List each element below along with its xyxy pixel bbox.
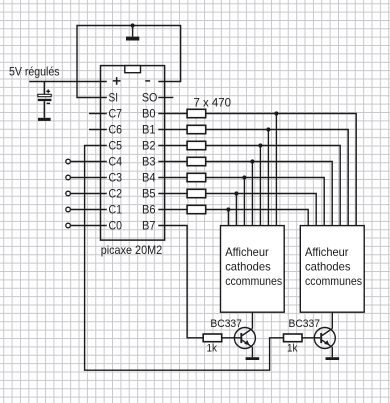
resistor R1 470 — [187, 109, 206, 117]
svg-text:SO: SO — [142, 91, 158, 105]
terminal circle C1 — [66, 207, 71, 212]
svg-text:B5: B5 — [142, 187, 156, 201]
IC U1 picaxe 20M2 body — [101, 66, 165, 241]
wire B4 drop to display 1 — [243, 178, 245, 226]
wire B0 segment to displays — [206, 114, 357, 226]
wire B2 drop to display 1 — [259, 146, 261, 226]
capacitor C1 positive plate — [38, 94, 51, 96]
wire B5 drop to display 1 — [235, 194, 237, 226]
resistor R3 470 — [187, 141, 206, 149]
wire B0 drop to display 1 — [275, 114, 277, 226]
capacitor C1 positive lead — [43, 82, 45, 95]
wire B4 to resistor — [158, 177, 187, 179]
wire B3 drop to display 1 — [251, 162, 253, 226]
svg-text:cathodes: cathodes — [225, 260, 271, 273]
transistor Q1 BC337 — [234, 328, 255, 349]
svg-text:C0: C0 — [109, 219, 123, 233]
wire C2 — [70, 193, 106, 195]
svg-text:BC337: BC337 — [289, 318, 321, 330]
resistor R5 470 — [187, 173, 206, 181]
wire B2 segment to displays — [206, 146, 341, 226]
svg-text:1k: 1k — [287, 342, 298, 354]
junction B4 — [242, 175, 246, 179]
display DIS2 afficheur box — [300, 226, 364, 313]
wire Q2 emitter to ground — [331, 347, 333, 357]
junction dot on 0V top rail — [131, 23, 135, 27]
svg-text:B0: B0 — [142, 107, 156, 121]
svg-text:C3: C3 — [109, 171, 123, 185]
terminal circle C0 — [66, 223, 71, 228]
resistor R7 470 — [187, 205, 206, 213]
junction B0 — [274, 111, 278, 115]
svg-text:B6: B6 — [142, 203, 156, 217]
junction B2 — [258, 143, 262, 147]
svg-text:cathodes: cathodes — [305, 260, 351, 273]
pin stub C7 — [89, 113, 107, 115]
display DIS1 afficheur box — [221, 226, 285, 313]
terminal circle C2 — [66, 191, 71, 196]
capacitor C1 negative plate — [38, 99, 52, 101]
wire R8 to Q1 base — [222, 337, 241, 339]
wire B6 drop to display 1 — [227, 210, 229, 226]
pin stub C6 — [89, 129, 107, 131]
wire Q2 collector to DIS2 — [331, 312, 333, 328]
wire B0 to resistor — [158, 113, 187, 115]
wire B6 to resistor — [158, 209, 187, 211]
svg-text:Afficheur: Afficheur — [225, 246, 269, 259]
wire B3 segment to displays — [206, 162, 333, 226]
ground on 0V top rail — [132, 26, 134, 37]
svg-text:C7: C7 — [109, 107, 123, 121]
pin - label — [145, 80, 150, 82]
transistor Q2 BC337 — [314, 328, 335, 349]
wire B7 to base resistor of Q1 — [158, 226, 203, 338]
svg-text:C2: C2 — [109, 187, 123, 201]
svg-text:Afficheur: Afficheur — [305, 246, 349, 259]
wire C4 — [70, 161, 106, 163]
wire C3 — [70, 177, 106, 179]
svg-text:C6: C6 — [109, 123, 123, 137]
junction B5 — [234, 191, 238, 195]
pin stub SO — [158, 97, 173, 99]
wire B6 segment to displays — [206, 210, 309, 226]
wire B3 to resistor — [158, 161, 187, 163]
wire R9 to Q2 base — [302, 337, 320, 339]
svg-text:5V régulés: 5V régulés — [9, 64, 60, 78]
svg-text:B3: B3 — [142, 155, 156, 169]
wire B2 to resistor — [158, 145, 187, 147]
svg-text:BC337: BC337 — [210, 318, 242, 330]
wire Q1 emitter to ground — [251, 347, 253, 357]
junction B1 — [266, 127, 270, 131]
ground below C1 — [38, 118, 51, 121]
resistor R8 1k — [203, 334, 222, 342]
wire B5 to resistor — [158, 193, 187, 195]
wire B4 segment to displays — [206, 178, 325, 226]
wire Q1 collector to DIS1 — [251, 312, 253, 328]
svg-text:1k: 1k — [207, 342, 218, 354]
resistor R4 470 — [187, 157, 206, 165]
pin + label — [113, 77, 121, 85]
svg-text:7 x 470: 7 x 470 — [194, 96, 232, 109]
wire C0 — [70, 225, 106, 227]
IC U1 top notch — [125, 66, 141, 73]
wire C1 — [70, 209, 106, 211]
svg-text:B2: B2 — [142, 139, 156, 153]
capacitor C1 negative lead — [43, 101, 45, 118]
svg-text:picaxe 20M2: picaxe 20M2 — [101, 243, 163, 257]
svg-text:SI: SI — [109, 91, 119, 105]
junction B3 — [250, 159, 254, 163]
svg-text:C5: C5 — [109, 139, 123, 153]
wire 0V loop: SI pin to top rail to pin - — [77, 26, 181, 98]
wire C5 to base resistor of Q2 — [85, 146, 284, 371]
svg-text:C4: C4 — [109, 155, 123, 169]
terminal circle C3 — [66, 175, 71, 180]
resistor R2 470 — [187, 125, 206, 133]
capacitor C1 plus mark — [46, 89, 50, 93]
svg-text:ccommunes: ccommunes — [225, 275, 282, 288]
wire B1 drop to display 1 — [267, 130, 269, 226]
svg-text:B7: B7 — [142, 219, 156, 233]
ground at Q1 emitter — [246, 357, 260, 360]
capacitor C1 minus mark — [47, 102, 50, 104]
svg-text:C1: C1 — [109, 203, 123, 217]
resistor R9 1k — [284, 334, 303, 342]
wire B1 segment to displays — [206, 130, 349, 226]
wire B1 to resistor — [158, 129, 187, 131]
wire 5V rail to pin + — [29, 81, 107, 83]
svg-text:B1: B1 — [142, 123, 156, 137]
svg-text:ccommunes: ccommunes — [305, 275, 362, 288]
junction B6 — [226, 207, 230, 211]
wire B5 segment to displays — [206, 194, 317, 226]
svg-text:B4: B4 — [142, 171, 156, 185]
ground at Q2 emitter — [326, 357, 340, 360]
resistor R6 470 — [187, 189, 206, 197]
terminal circle C4 — [66, 159, 71, 164]
